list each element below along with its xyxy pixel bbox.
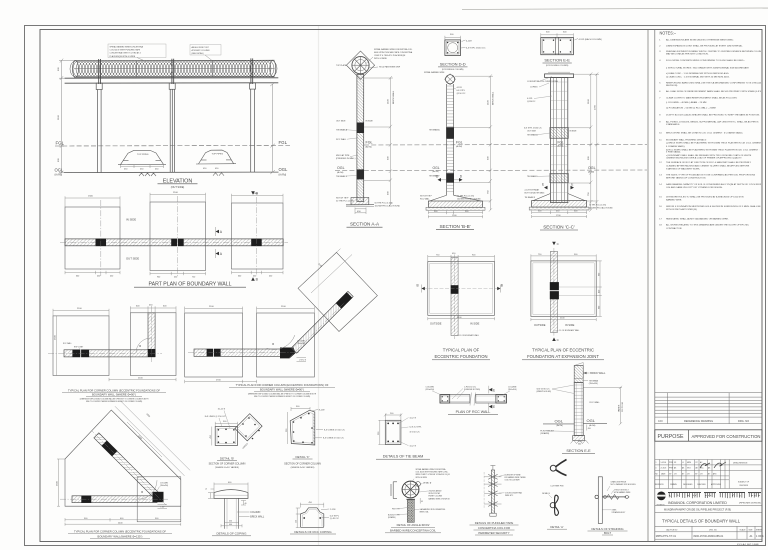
dims above rects [185,307,315,313]
svg-text:SECTION 'C-C': SECTION 'C-C' [543,224,575,229]
svg-text:OUT SIDE: OUT SIDE [126,257,139,261]
svg-text:Φ: Φ [272,342,274,346]
column black square 1 [96,239,107,247]
svg-text:(At Rd): (At Rd) [279,173,287,176]
svg-text:6-Φ 2L STPL: 6-Φ 2L STPL [410,426,423,429]
FGL dashed line across sections [364,143,647,146]
svg-text:OGL: OGL [337,166,345,170]
svg-text:DITE/BORE HOLES TO SHALL BE P: DITE/BORE HOLES TO SHALL BE PROVIDED AT … [666,195,744,198]
svg-text:DETAIL 'B': DETAIL 'B' [220,456,235,460]
svg-text:OUTSIDE: OUTSIDE [534,323,546,327]
labels [611,481,637,514]
horizontal wall strip [72,496,157,503]
cross ties [488,474,497,506]
svg-text:1 OF 1: 1 OF 1 [756,535,764,538]
svg-text:TYPICAL PLAN OF ECCENTRIC: TYPICAL PLAN OF ECCENTRIC [532,348,594,353]
pentagon section [290,410,315,445]
svg-text:TYPICAL PLAN FOR CORNER COLUMN: TYPICAL PLAN FOR CORNER COLUMN (ECCENTRI… [74,529,166,533]
svg-text:(FOR DOUBLE COLUMN): (FOR DOUBLE COLUMN) [546,65,569,67]
svg-text:i) COLUMNS :- 40 MM: i) COLUMNS :- 40 MM ii) BEAM :- 25 MM [666,101,707,104]
svg-text:WIRE 4 GA: WIRE 4 GA [420,510,430,513]
svg-text:450: 450 [253,276,256,278]
rotated foundation rect [298,252,377,331]
svg-text:CONTRACTOR.: CONTRACTOR. [666,227,682,230]
cutter pin top view [550,465,556,471]
svg-text:THE SURFACE OF RCC AT JUNCTION: THE SURFACE OF RCC AT JUNCTION OF RCC & … [666,161,752,164]
svg-text:CONCERTINA OVER IT & TIED AT 4: CONCERTINA OVER IT & TIED AT 4 [110,52,141,55]
labels [321,509,329,518]
svg-text:BOUNDARY WALL (WHERE Φ≠90°): BOUNDARY WALL (WHERE Φ≠90°) [260,388,304,392]
section C-C [524,72,613,230]
svg-text:PLACES/SQM WITH GI WIRE: PLACES/SQM WITH GI WIRE [110,55,136,58]
svg-text:900: 900 [598,273,600,276]
concertina coil circle [402,481,419,498]
column black squares 2 (expansion pair) [171,239,184,247]
svg-text:900: 900 [598,306,600,309]
left dimension line [59,59,74,175]
svg-text:WITH IN 2M PLASTICIZER (M).: WITH IN 2M PLASTICIZER (M). [666,208,698,211]
svg-text:75: 75 [206,488,208,490]
svg-text:BARBED WIRE.: BARBED WIRE. [666,198,682,201]
svg-text:ii) LEAN CONC. : 1:3:6 NOMINA: ii) LEAN CONC. : 1:3:6 NOMINAL MIX WITH … [666,72,730,75]
svg-text:2100: 2100 [588,98,590,104]
G_CORNERPLAN3 [57,401,191,539]
foundation rect left [53,316,109,376]
left column square [440,395,450,404]
foundation rect 3 [232,203,284,269]
right column square [496,395,507,404]
rcc coping profile [300,508,323,528]
svg-text:(At Rd): (At Rd) [433,170,439,173]
G_DETAIL_B [205,408,262,469]
svg-text:IN SIDE: IN SIDE [565,323,575,327]
footing pedestal slopes [430,195,482,201]
wall band left segment [440,395,470,404]
svg-text:TIE BEAM F: TIE BEAM F [525,196,536,199]
E markers [489,386,495,411]
left dim [379,420,381,444]
right dim chain [454,74,493,211]
svg-text:DETAIL B: DETAIL B [542,492,551,495]
svg-text:MPPL/PTS-7/T-01: MPPL/PTS-7/T-01 [656,535,677,538]
svg-text:BOTTOM (BOTH WAY): BOTTOM (BOTH WAY) [525,191,545,194]
svg-text:3-12 Φ: 3-12 Φ [410,416,417,419]
svg-text:FGL: FGL [279,140,288,145]
svg-text:IN SIDE: IN SIDE [126,218,136,222]
rcc wall body [574,383,583,436]
svg-text:(PIPELINES DIVISION): (PIPELINES DIVISION) [739,503,761,505]
labels right [584,372,590,381]
right dim chain [584,386,623,426]
svg-text:(UNLESS NOTED): (UNLESS NOTED) [464,389,480,391]
svg-text:BOUNDARY WALL(WHERE Φ=135°): BOUNDARY WALL(WHERE Φ=135°) [98,535,143,539]
foundation rect 1 [65,207,120,269]
G_PUNCHED_TAPE [470,466,527,536]
svg-text:(At Rd): (At Rd) [366,145,373,148]
outer rect [428,262,495,316]
G_ECC_FOUNDATION1 [417,253,503,360]
svg-text:PURPOSE: PURPOSE [658,434,685,440]
svg-text:BRICK WALL: BRICK WALL [392,90,395,104]
left dim [287,412,289,444]
left labels [336,121,401,208]
diagonal wall band [291,291,353,353]
svg-text:ALL DIMENSIONS ARE IN MM UNLES: ALL DIMENSIONS ARE IN MM UNLESS OTHERWIS… [666,39,734,42]
tie beam inside [574,379,583,383]
column 2 (expansion joint pair) [169,83,175,172]
svg-text:SPIRAL BARBED WIRE: SPIRAL BARBED WIRE [424,71,445,74]
black columns stacked (expansion joint) [550,282,559,299]
svg-text:BRICK WALL: BRICK WALL [590,372,606,375]
svg-text:6-Φ STPL @150 C/C: 6-Φ STPL @150 C/C [466,47,486,50]
svg-text:100 MM PROJ. ALL ROUND: 100 MM PROJ. ALL ROUND [375,204,401,207]
sheet top edge line [462,8,768,10]
svg-text:TIE BEAM A: TIE BEAM A [429,129,440,132]
svg-text:ELEVATION: ELEVATION [163,178,193,184]
centerlines vertical [101,196,257,277]
svg-text:B: B [417,284,419,288]
svg-text:20MM EXPANSION JOINT SHALL BE: 20MM EXPANSION JOINT SHALL BE PROVIDED A… [666,44,743,47]
svg-text:(At Rd): (At Rd) [588,171,594,174]
signature squiggles [700,462,726,468]
right dim chains [568,72,599,211]
svg-text:45: 45 [421,501,423,503]
G_ELEVATION [55,44,291,189]
svg-text:(DRAWN): (DRAWN) [540,432,549,435]
svg-text:40: 40 [245,503,247,505]
svg-text:SECTION OF CORNER COLUMN: SECTION OF CORNER COLUMN [209,463,246,466]
coil circle [352,57,369,74]
coping cap profile [214,490,248,499]
angle arc [138,480,157,499]
svg-text:(350x450): (350x450) [589,383,598,385]
svg-text:SUBJECT OF: SUBJECT OF [738,482,750,484]
svg-text:SPIRAL BARBED WIRE/CONCERTINA: SPIRAL BARBED WIRE/CONCERTINA COIL [374,48,412,51]
svg-text:300: 300 [578,443,581,445]
svg-text:FGL: FGL [558,140,564,144]
svg-text:(WHERE Φ≠90° VARIES): (WHERE Φ≠90° VARIES) [291,466,315,469]
svg-text:L 45°: L 45° [161,507,165,509]
concertina coil top tangent lines [74,59,275,61]
bottom dims [65,518,181,526]
wall stem [225,498,239,528]
svg-text:600Φ WITH PUNCHED TAPE CONCERT: 600Φ WITH PUNCHED TAPE CONCERTINA [374,51,413,54]
svg-text:SPIRAL BARBED WIRE/CONCERTINA: SPIRAL BARBED WIRE/CONCERTINA [416,468,447,471]
break marks [470,393,472,406]
svg-text:0: 0 [656,468,657,470]
centerline [553,248,555,336]
svg-text:L 90°≤ Φ: L 90°≤ Φ [299,359,307,362]
svg-text:PLAN OF RCC WALL: PLAN OF RCC WALL [456,410,491,414]
horizontal wall strip [64,350,155,357]
outer rect [531,261,596,317]
column ladder [447,84,454,195]
svg-text:SCALE: SCALE [740,528,747,531]
coil diamond [346,51,374,79]
right dim chain [364,76,393,206]
svg-text:SECTION OF CORNER COLUMN: SECTION OF CORNER COLUMN [284,463,321,466]
svg-text:CUTTER PIN: CUTTER PIN [550,486,564,488]
svg-text:OUT SIDE: OUT SIDE [336,121,346,123]
OGL ground line [64,171,279,174]
svg-text:COIL 600Φ WITH PUNCHED TAPE CO: COIL 600Φ WITH PUNCHED TAPE CONC. [416,471,449,474]
svg-text:DETAILS OF COPING: DETAILS OF COPING [217,532,248,536]
svg-text:SECTION E-E: SECTION E-E [566,449,591,453]
footing slopes [533,194,585,201]
svg-text:100 MM PROJ ALL ROUND: 100 MM PROJ ALL ROUND [457,197,481,200]
svg-text:NOTES:–: NOTES:– [660,31,677,37]
svg-text:MS FLAT PIPE: MS FLAT PIPE [336,154,350,157]
svg-text:SPIRAL BARBED WIRE/CONCERTINA: SPIRAL BARBED WIRE/CONCERTINA [110,46,144,49]
svg-text:DRG. NO.: DRG. NO. [709,529,718,531]
leader note box 1 [108,44,166,62]
dims above [65,193,283,207]
svg-text:(At Rd): (At Rd) [456,145,462,148]
labels [291,407,323,438]
svg-text:2100: 2100 [488,99,490,105]
svg-text:(At Rd): (At Rd) [558,145,564,148]
svg-text:TYPICAL PLAN FOR CORNER COLUMN: TYPICAL PLAN FOR CORNER COLUMN (ECCENTRI… [68,388,160,392]
svg-text:AT EVERY COLUMN: AT EVERY COLUMN [192,49,210,52]
svg-text:COPING: COPING [530,87,538,89]
svg-text:8-Φ LINKS @ 150 C/C: 8-Φ LINKS @ 150 C/C [324,428,345,431]
svg-text:50 THK PCC (1:4:8): 50 THK PCC (1:4:8) [375,203,393,205]
svg-text:TIE BEAM A: TIE BEAM A [527,134,538,137]
G_SECTION_EE_MID [537,363,625,454]
svg-text:INDIANOIL CORPORATION LIMITED: INDIANOIL CORPORATION LIMITED [668,501,727,505]
C marker bottom [552,338,559,343]
column black square 3 [251,239,262,247]
FGL dashed line [55,145,290,148]
svg-text:IN SIDE: IN SIDE [366,121,374,123]
svg-text:@ 150 C/C: @ 150 C/C [410,432,421,434]
svg-text:MUNDRA/PANIPAT CRUDE OIL PIPEL: MUNDRA/PANIPAT CRUDE OIL PIPELINE PROJEC… [664,509,731,512]
svg-text:BOLT: BOLT [604,531,611,535]
svg-text:5.02.04: 5.02.04 [661,462,667,464]
svg-text:THE SIZES / TYPE OF FOUNDATION: THE SIZES / TYPE OF FOUNDATION TO BE CON… [666,173,756,176]
svg-text:(350x450): (350x450) [297,343,305,345]
section E-E top [541,32,602,67]
svg-text:PLINTH/BEAM: PLINTH/BEAM [540,429,554,432]
svg-text:C/L OF BOUNDARY WALL: C/L OF BOUNDARY WALL [559,329,579,332]
dim right of post [419,498,421,504]
svg-text:OGL: OGL [555,418,564,423]
svg-text:50 THK PCC (1:4:8): 50 THK PCC (1:4:8) [457,196,474,198]
svg-text:TOP PIPES: TOP PIPES [212,153,224,155]
diagonal dims [115,401,190,476]
svg-text:BARBED WIRE/CONCERTINA COIL: BARBED WIRE/CONCERTINA COIL [390,529,436,533]
svg-text:a) BRICK WORK SHALL BE PLAST: a) BRICK WORK SHALL BE PLASTERED WITH 15… [666,142,763,145]
svg-text:DETAIL OF ANGLE IRON/: DETAIL OF ANGLE IRON/ [397,523,430,527]
tie beam section square [385,420,401,444]
svg-text:300 TO 1M: 300 TO 1M [622,402,624,412]
centerlines [60,431,168,505]
dashed guide [483,472,485,508]
svg-text:DETAIL 'A': DETAIL 'A' [550,525,564,529]
svg-text:1: 1 [656,462,657,464]
svg-text:DRG. NO: DRG. NO [738,419,749,423]
svg-text:COIL/ ROLLS TAPE: COIL/ ROLLS TAPE [505,479,521,482]
dims above [53,306,176,316]
svg-text:CEMENT/SNOWCEM OVER A COAT OF: CEMENT/SNOWCEM OVER A COAT OF PRIMER OF … [666,156,742,159]
svg-text:2100: 2100 [388,98,390,104]
horizontal wall strip [194,349,282,356]
dims bottom [428,317,495,320]
svg-text:PASSIVATED SHALL ADMIT GALVANI: PASSIVATED SHALL ADMIT GALVANIZED OR BAR… [666,217,729,220]
svg-text:REINFORCING BARS USED SHALL BE: REINFORCING BARS USED SHALL BE TMT/CA ME… [666,82,767,85]
svg-text:ANGLE IRON POST: ANGLE IRON POST [192,46,210,49]
labels [237,512,250,517]
svg-text:4-12Φ (EACH COLUMN): 4-12Φ (EACH COLUMN) [579,38,602,41]
svg-text:E: E [493,388,495,392]
svg-text:E: E [493,405,495,409]
B section marker bottom [251,277,255,281]
rebar dots [303,517,305,519]
dims bottom [531,318,596,321]
wall band right segment [476,395,507,404]
tie beam bands [550,127,568,138]
svg-text:PERIMETER SECURITY: PERIMETER SECURITY [478,531,509,535]
labels right [399,418,409,446]
E section markers [542,182,574,189]
svg-text:PART PLAN OF BOUNDARY WALL: PART PLAN OF BOUNDARY WALL [149,282,232,288]
svg-text:(At Rd): (At Rd) [557,424,564,427]
corner black column [153,492,164,502]
svg-text:(350x450): (350x450) [426,389,435,391]
left dim [57,459,65,506]
dim 300 [215,422,237,427]
tie beam band lower [357,169,364,179]
G_PLAN_RCC_WALL [426,386,517,415]
svg-text:RCC WALL: RCC WALL [336,138,347,141]
rebar dots [387,423,399,443]
svg-text:8-Φ LINKS @ 150 C/C: 8-Φ LINKS @ 150 C/C [323,437,344,440]
black column [451,285,459,294]
G_CORNERPLAN1 [48,305,176,403]
svg-text:VARIES: VARIES [618,404,621,412]
top dim [384,414,402,421]
svg-text:RCC WALL: RCC WALL [420,197,430,200]
dims [208,483,248,506]
svg-text:(SEE DETAIL): (SEE DETAIL) [192,52,204,55]
svg-text:(OUT SIDE): (OUT SIDE) [171,186,185,189]
top coping bar [545,74,574,78]
svg-text:OUTSIDE: OUTSIDE [430,322,442,326]
corner foundation rect [137,477,181,522]
svg-text:BOUNDARY WALL (WHERE Φ=90°): BOUNDARY WALL (WHERE Φ=90°) [92,393,136,397]
svg-text:OVER IT & TIED AT 4 PLACES/SQM: OVER IT & TIED AT 4 PLACES/SQM [374,54,406,57]
pentagon outline [65,410,181,506]
svg-text:450: 450 [598,290,600,293]
svg-text:IRON POST AT: IRON POST AT [429,492,441,495]
svg-text:iii) FOUNDATION :- 50 MM: iii) FOUNDATION :- 50 MM iv) RCC WALL :-… [666,106,716,109]
G_DETAIL_F [284,406,345,469]
svg-text:DESIGNED: DESIGNED [683,484,693,486]
svg-text:TYPICAL PLAN FOR CORNER COLUMN: TYPICAL PLAN FOR CORNER COLUMN (ECCENTRI… [236,383,329,387]
straight column section square [215,427,237,446]
dims [296,503,324,528]
svg-text:TIE BEAM: TIE BEAM [589,379,599,382]
footing slab [532,201,587,208]
svg-text:SR/DVR 4 FOUNDATION MENTIONED: SR/DVR 4 FOUNDATION MENTIONED HOLE SHOWN… [666,205,768,208]
column 3 [250,83,256,172]
section A-A [336,48,413,227]
svg-text:STANDARDS.: STANDARDS. [666,123,680,126]
foundation rect right [130,313,176,376]
svg-text:STARTING OF MASONRY WORK.: STARTING OF MASONRY WORK. [666,167,701,170]
svg-text:RCC WALL: RCC WALL [63,342,72,345]
svg-text:OGL: OGL [433,166,440,170]
svg-text:DETAIL REVISION: DETAIL REVISION [733,462,748,465]
svg-text:TYPICAL PLAN OF: TYPICAL PLAN OF [443,348,480,353]
angle arc [267,328,295,356]
post cap [406,498,415,500]
top tick [492,466,494,471]
svg-text:6-Φ STPL @150 C/C: 6-Φ STPL @150 C/C [524,127,542,130]
svg-text:@150 C/C: @150 C/C [457,93,466,95]
OGL dashed line across sections [335,169,647,172]
svg-text:450: 450 [588,428,591,430]
svg-text:PPM: PPM [669,462,673,464]
svg-text:FIX BARBED WIRE THREE: FIX BARBED WIRE THREE [505,476,527,479]
svg-text:CHAIN LINK FENCE: CHAIN LINK FENCE [611,481,628,484]
svg-text:BOUNDARY WALL FINISHING DETAIL: BOUNDARY WALL FINISHING DETAILS: [666,139,707,142]
title column divider lines [647,30,649,542]
svg-text:DETAILS OF PUNCHED TAPE: DETAILS OF PUNCHED TAPE [475,521,514,525]
svg-text:DETAILS OF RCC COPING: DETAILS OF RCC COPING [294,530,332,534]
svg-text:TYPICAL DETAILS OF BOUNDARY WA: TYPICAL DETAILS OF BOUNDARY WALL [662,519,740,524]
foundation rect mid [257,313,315,377]
bottom dim [185,380,257,383]
svg-text:DETAIL 'F': DETAIL 'F' [296,455,310,459]
foundation rect 2 [150,202,206,271]
svg-text:4-12Φ: 4-12Φ [466,39,472,42]
coil binding ties [137,60,213,77]
svg-text:(At Rd): (At Rd) [55,174,63,177]
tie arms horizontal [484,477,501,504]
bottom table [655,526,762,539]
black column on wall [81,496,91,503]
G_RCC_COPING [290,502,340,534]
centerline [454,255,456,340]
svg-text:SHEET: SHEET [756,529,763,531]
svg-text:i) STRUCTURAL WORKS : M20 GR: i) STRUCTURAL WORKS : M20 GRADE WITH 20M… [666,66,749,69]
post bar [598,477,602,524]
small dims [578,425,587,442]
svg-text:TIE BEAM F: TIE BEAM F [429,174,440,177]
svg-text:STRAINING BOLT: STRAINING BOLT [612,511,626,514]
svg-text:COILS/CONCERTINA: COILS/CONCERTINA [505,491,523,494]
svg-text:REFERENCE DRAWING: REFERENCE DRAWING [684,419,713,423]
svg-text:COIL 600 Φ WITH PUNCHED TAPE: COIL 600 Φ WITH PUNCHED TAPE [110,49,141,52]
G_SECTIONS [335,32,647,230]
svg-text:FOUNDATION AT EXPANSION JOINT: FOUNDATION AT EXPANSION JOINT [527,354,599,359]
svg-text:SECTION D-D: SECTION D-D [440,62,466,67]
ground lines [543,423,574,425]
svg-text:MAY BE DONE AS PER SITE CONDIT: MAY BE DONE AS PER SITE CONDITION. [666,53,709,56]
svg-text:2-12Φ: 2-12Φ [330,508,336,511]
pipe culvert 2 [196,150,236,164]
svg-text:OGL: OGL [279,167,289,172]
svg-text:600: 600 [229,524,232,526]
svg-text:(WEEP HOLES): (WEEP HOLES) [537,391,552,393]
G_TIEBEAM [376,413,430,459]
svg-text:CHECKED: CHECKED [697,484,706,486]
black column pair on wall [207,349,221,357]
G_ECC_FOUNDATION2 [522,242,604,360]
svg-text:FGL: FGL [366,141,373,145]
svg-text:DRAWN: DRAWN [670,483,677,486]
